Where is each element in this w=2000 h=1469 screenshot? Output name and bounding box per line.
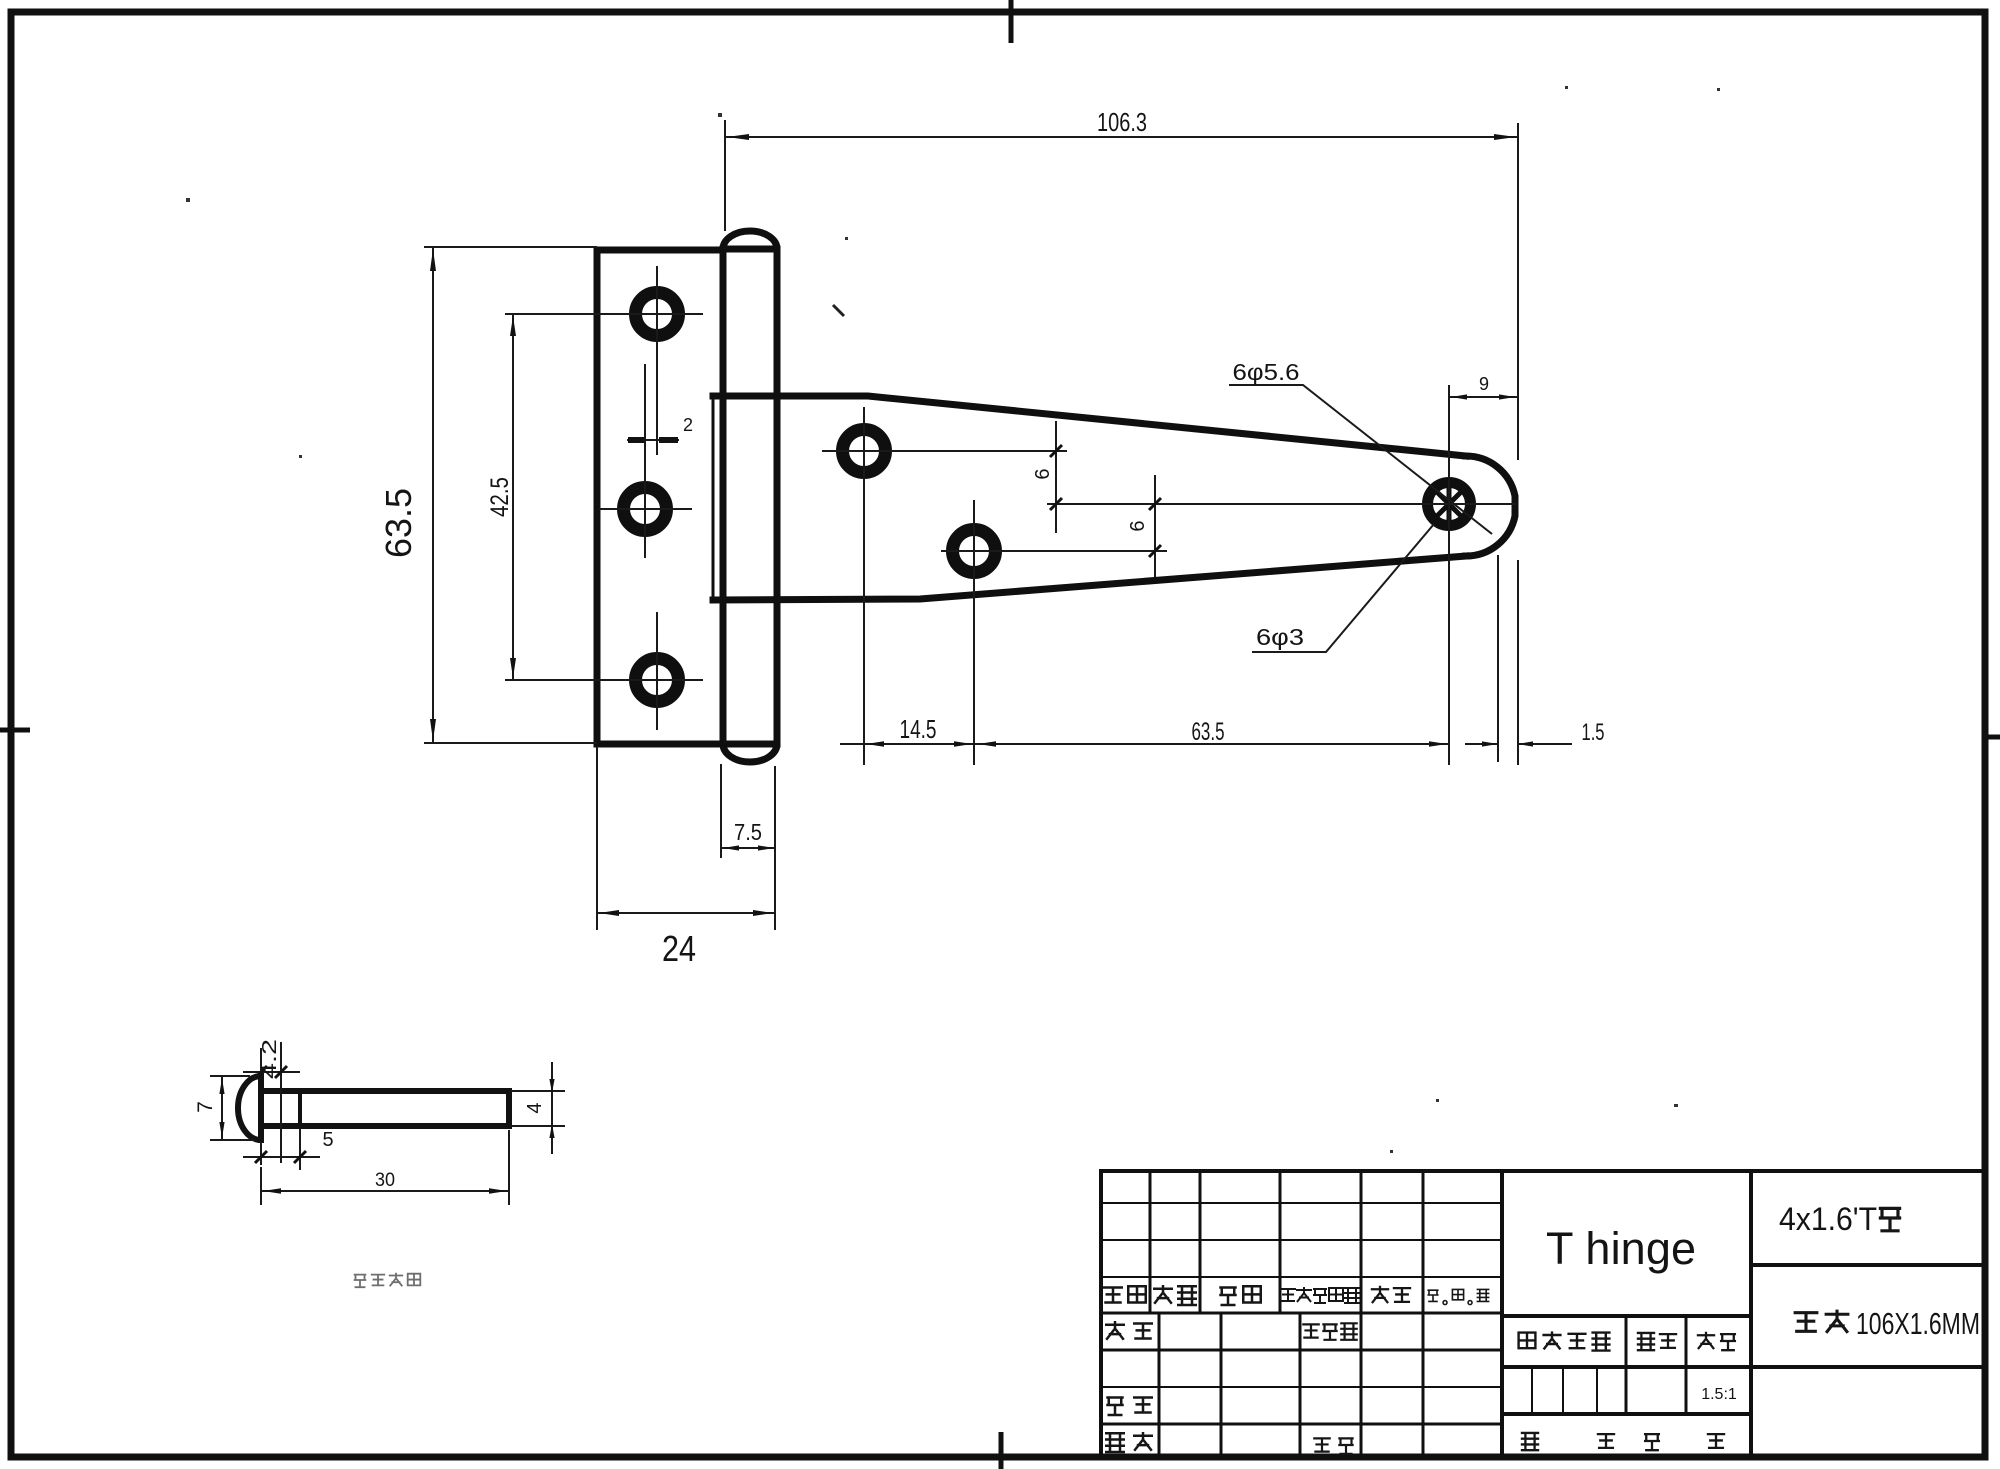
svg-text:42.5: 42.5 xyxy=(486,477,514,517)
row sheji / biaozhunhua xyxy=(1105,1321,1358,1340)
4.2 ticks xyxy=(255,1066,287,1078)
top center tick xyxy=(1009,0,1014,43)
dim 7 lines xyxy=(210,1076,255,1140)
middle hole horizontal centerline xyxy=(599,508,692,510)
jieduan biaoji / zhongliang / bili xyxy=(1519,1331,1736,1350)
title block main verticals xyxy=(1101,1171,1751,1458)
scale boxes verticals xyxy=(1532,1367,1597,1414)
dimension arrowheads xyxy=(430,134,1533,916)
lower-left section verticals xyxy=(1159,1313,1300,1458)
dim 2 ticks xyxy=(628,437,678,443)
leader 6phi5.6 xyxy=(1229,385,1492,534)
rivet neck line xyxy=(298,1091,302,1126)
dim 1.5 lines xyxy=(1465,555,1572,762)
dim 106.3 lines xyxy=(725,120,1518,765)
left table horizontals thin xyxy=(1101,1203,1502,1387)
svg-text:7.5: 7.5 xyxy=(734,819,762,845)
rivet shank xyxy=(261,1091,509,1126)
bottom hole horizontal centerline xyxy=(505,679,703,681)
left middle tick xyxy=(0,728,30,733)
svg-text:6: 6 xyxy=(1127,520,1149,531)
dim 4.2 lines xyxy=(243,1042,300,1163)
63.5 bottom arrows xyxy=(978,741,996,747)
tip hole with cross spokes xyxy=(1428,483,1471,526)
scan noise specks xyxy=(186,86,1720,1153)
bottom center tick xyxy=(999,1432,1004,1469)
gong zhang di zhang xyxy=(1521,1433,1725,1450)
left table horizontals thick xyxy=(1101,1313,1502,1424)
dim 7.5 lines xyxy=(721,764,776,858)
dim 6 lower ticks xyxy=(1149,498,1161,557)
svg-text:6φ3: 6φ3 xyxy=(1256,624,1304,650)
rivet head dome xyxy=(238,1076,261,1140)
strap (tapered arm) outline xyxy=(713,396,1515,600)
svg-text:30: 30 xyxy=(375,1170,395,1191)
30 arrows xyxy=(263,1188,281,1194)
7.5 arrows xyxy=(723,845,739,850)
svg-text:1.5:1: 1.5:1 xyxy=(1701,1386,1737,1403)
svg-text:7: 7 xyxy=(194,1101,217,1113)
dim 30 lines xyxy=(261,1130,509,1205)
top hole horizontal centerline xyxy=(505,313,703,315)
title block top edge xyxy=(1101,1169,1986,1173)
rivet caption (Chinese) xyxy=(354,1273,421,1287)
strap hole B horizontal centerline xyxy=(941,550,1167,552)
strap hole B vertical extension xyxy=(973,500,975,765)
svg-text:1.5: 1.5 xyxy=(1582,719,1605,746)
leader 6phi3 xyxy=(1252,524,1434,652)
svg-text:4x1.6'T: 4x1.6'T xyxy=(1779,1201,1877,1237)
dimension texts xyxy=(378,107,1605,969)
svg-text:106.3: 106.3 xyxy=(1097,107,1147,137)
dim 42.5 lines xyxy=(512,314,514,680)
rivet side view xyxy=(238,1076,509,1140)
strap left edge xyxy=(712,396,715,600)
dim 4 lines xyxy=(511,1062,565,1154)
dim 6 upper ticks xyxy=(1050,445,1062,510)
rivet head flat xyxy=(258,1076,264,1140)
24 arrows xyxy=(599,910,619,916)
dim 24 lines xyxy=(597,746,775,930)
7 arrows xyxy=(219,1078,224,1094)
dim 14.5 / 63.5 bottom line xyxy=(840,743,1449,745)
T-hinge main view xyxy=(597,231,1515,762)
strap hole A vertical extension xyxy=(863,407,865,765)
leaf plate outline xyxy=(597,250,723,744)
svg-text:106X1.6MM: 106X1.6MM xyxy=(1856,1306,1980,1341)
material spec xyxy=(1794,1306,1980,1341)
plate hole top xyxy=(636,293,679,336)
plate holes vertical centerline bottom xyxy=(656,612,658,730)
svg-text:4: 4 xyxy=(524,1102,546,1113)
4 arrows outside xyxy=(549,1079,554,1093)
plate hole bottom xyxy=(636,659,679,702)
strap hole B xyxy=(953,530,996,573)
middle hole vertical centerline xyxy=(644,364,646,558)
svg-text:6φ5.6: 6φ5.6 xyxy=(1233,359,1300,385)
svg-text:4.2: 4.2 xyxy=(259,1039,281,1079)
svg-text:14.5: 14.5 xyxy=(900,714,937,744)
dim 9 line xyxy=(1449,396,1517,398)
plate hole middle xyxy=(624,488,667,531)
svg-text:63.5: 63.5 xyxy=(1192,718,1225,746)
svg-text:6: 6 xyxy=(1032,468,1054,479)
right middle tick xyxy=(1982,735,2000,740)
plate holes vertical centerline top xyxy=(656,266,658,455)
svg-text:T hinge: T hinge xyxy=(1546,1223,1696,1274)
strap hole A xyxy=(843,430,886,473)
hinge barrel (knuckle) xyxy=(723,231,777,762)
centerlines xyxy=(505,266,1516,765)
tip hole vertical extension xyxy=(1448,385,1450,765)
svg-text:2: 2 xyxy=(683,415,693,435)
dim 6 lower line xyxy=(1154,475,1156,577)
dim 2 line xyxy=(627,439,679,441)
dim 63.5 left lines xyxy=(424,247,597,743)
part name 4x1.6"T-hinge xyxy=(1779,1201,1901,1237)
106.3 arrows xyxy=(727,134,749,140)
svg-text:63.5: 63.5 xyxy=(378,488,419,558)
strap hole A horizontal centerline xyxy=(822,450,1067,452)
header row: biaoji chushu fenqu etc xyxy=(1103,1285,1489,1305)
right column horizontals xyxy=(1751,1263,1986,1267)
dim 5 lines xyxy=(243,1128,320,1170)
42.5 arrows xyxy=(510,316,516,336)
row gongyi / pizhun xyxy=(1105,1432,1354,1454)
row shenhe xyxy=(1106,1398,1153,1416)
14.5 arrows xyxy=(866,741,884,747)
title block grid xyxy=(1101,1171,1986,1458)
strap axis centerline xyxy=(1047,503,1516,505)
signature columns verticals full xyxy=(1361,1171,1423,1458)
svg-text:5: 5 xyxy=(322,1129,333,1151)
svg-text:24: 24 xyxy=(662,928,696,969)
1.5 arrows xyxy=(1482,741,1498,746)
63.5 left arrows xyxy=(430,249,436,271)
revision table verticals upper xyxy=(1150,1171,1280,1313)
5 ticks xyxy=(255,1151,306,1163)
dimensions xyxy=(424,120,1572,930)
slash ticks for small dims xyxy=(628,440,1161,557)
dim 6 upper line xyxy=(1055,421,1057,533)
rivet dimensions xyxy=(210,1042,565,1205)
9 arrows xyxy=(1451,394,1467,399)
svg-text:9: 9 xyxy=(1479,374,1489,394)
